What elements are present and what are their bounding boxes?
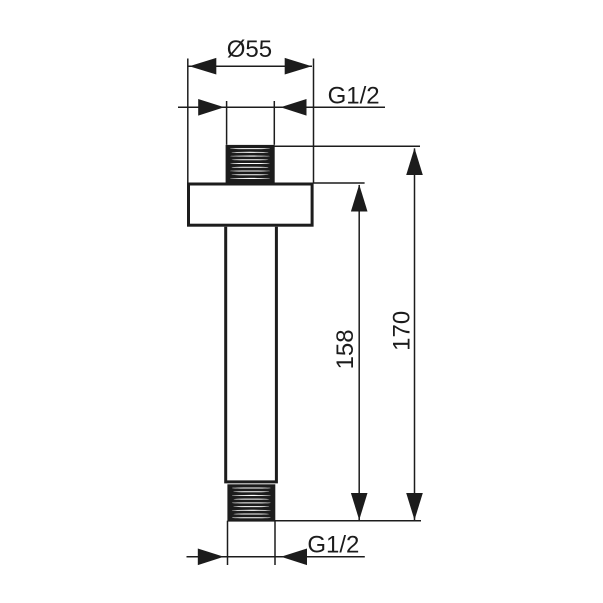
svg-text:G1/2: G1/2 — [307, 531, 359, 558]
svg-text:170: 170 — [389, 311, 416, 351]
svg-text:Ø55: Ø55 — [227, 36, 272, 63]
svg-text:158: 158 — [332, 329, 359, 369]
svg-text:G1/2: G1/2 — [328, 83, 380, 110]
